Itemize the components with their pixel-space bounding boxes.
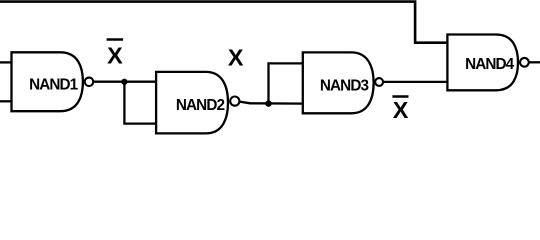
wire tie NAND2 both inputs together: [124, 82, 157, 124]
nand-gate U2 NAND2 body: [156, 72, 228, 133]
wire top feedback from input line to NAND4 upper input: [0, 2, 446, 43]
bubble NAND2 output inverter: [230, 97, 239, 106]
svg-text:NAND4: NAND4: [465, 56, 515, 73]
wire NAND2 output to NAND3 lower input: [239, 102, 303, 104]
bubble NAND4 output inverter: [520, 58, 529, 67]
node junction dot on NAND2 output: [265, 100, 271, 106]
wire NAND3 output to NAND4 lower input: [383, 81, 448, 83]
svg-text:NAND2: NAND2: [176, 97, 225, 114]
wire tie NAND3 both inputs together: [269, 63, 304, 103]
wire NAND1 input B: [0, 100, 13, 102]
wire NAND4 output: [529, 61, 540, 63]
svg-text:NAND1: NAND1: [29, 76, 79, 93]
label Xbar overline: [107, 38, 124, 40]
nand-gate U4 NAND4 body: [447, 35, 518, 91]
svg-text:NAND3: NAND3: [320, 78, 369, 95]
svg-text:X: X: [228, 44, 244, 70]
nand-gate U1 NAND1 body: [12, 52, 83, 111]
bubble NAND3 output inverter: [375, 78, 383, 86]
wire NAND1 output to NAND2 inputs: [93, 81, 157, 83]
svg-text:X: X: [393, 97, 409, 123]
svg-text:X: X: [107, 42, 123, 68]
node junction dot on NAND1 output: [121, 79, 127, 85]
wire NAND1 input A: [0, 61, 13, 63]
label Xbar2 overline: [392, 95, 408, 97]
bubble NAND1 output inverter: [85, 78, 94, 87]
nand-gate U3 NAND3 body: [303, 52, 374, 113]
